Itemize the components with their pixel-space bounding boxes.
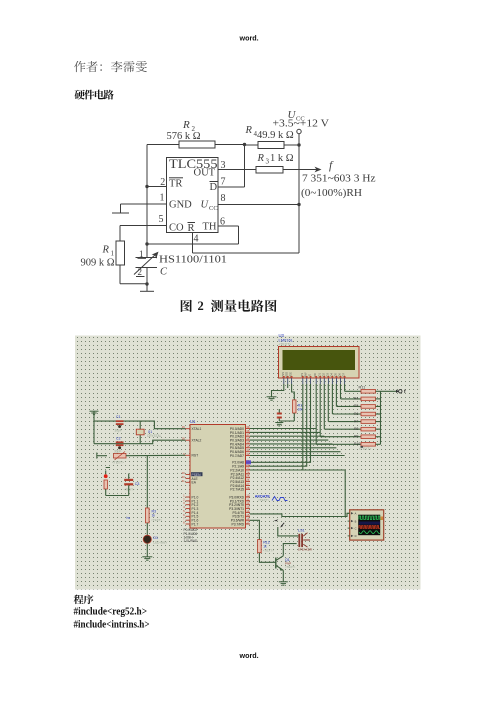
ground (pin 1) — [112, 212, 129, 214]
small resistor below dot — [104, 480, 107, 489]
svg-text:LS1: LS1 — [298, 528, 305, 532]
rail right of resistor stack — [380, 391, 382, 444]
wire LS1 upper input — [278, 527, 299, 536]
wire collector to LS1 — [283, 544, 296, 556]
svg-text:GND: GND — [169, 200, 192, 211]
capacitor C3 — [124, 479, 133, 481]
svg-text:2: 2 — [198, 299, 204, 313]
svg-text:#include<reg52.h>: #include<reg52.h> — [74, 606, 148, 617]
wire down to R3 — [146, 456, 148, 508]
reset terminal — [96, 453, 98, 459]
svg-text:<TEXT>: <TEXT> — [263, 549, 274, 553]
svg-text:C1: C1 — [116, 415, 121, 419]
capacitor near R2 — [277, 413, 282, 415]
wire riser to P2.2 net — [344, 470, 346, 517]
svg-text:R6: R6 — [354, 412, 358, 416]
wire emitter to ground — [282, 570, 284, 581]
svg-text:17: 17 — [246, 521, 250, 525]
svg-text:D7: D7 — [342, 373, 346, 377]
wire P3 to scope — [250, 513, 350, 516]
svg-text:word.: word. — [239, 651, 259, 660]
data bus: P0.0-P0.7 to LCD D0-D7 drops — [250, 428, 316, 430]
svg-text:LED-BIBY: LED-BIBY — [153, 541, 167, 545]
svg-text:CO: CO — [169, 223, 184, 234]
svg-text:R: R — [245, 125, 253, 136]
wire: R1 bottom — [119, 265, 121, 284]
resistor R3 — [146, 508, 150, 523]
svg-text:2: 2 — [160, 177, 165, 188]
svg-text:30pF: 30pF — [115, 429, 122, 433]
highlighted pin 25 — [246, 460, 251, 464]
resistor row 1 — [341, 398, 361, 400]
svg-text:<TEXT>: <TEXT> — [285, 565, 296, 569]
svg-text:R11: R11 — [359, 386, 366, 390]
wire VSS to ground — [272, 384, 284, 397]
op-amp U1: TLC555 timer body — [167, 158, 219, 233]
svg-text:CRYSTAL: CRYSTAL — [147, 434, 162, 438]
resistor row 3 — [333, 413, 362, 415]
capacitor C: HS1100/1101 humidity sensor — [146, 244, 148, 258]
svg-text:C3: C3 — [135, 482, 140, 486]
resistor R1 — [116, 241, 125, 265]
svg-text:1: 1 — [139, 249, 144, 259]
resistor row 0 — [345, 390, 361, 392]
svg-text:909 k Ω: 909 k Ω — [81, 258, 115, 269]
wire: top net from pin2 rail to R2 — [147, 144, 179, 146]
wire: pin 2 TR — [147, 186, 167, 188]
svg-text:1 k Ω: 1 k Ω — [270, 153, 294, 164]
node: junction R2/R4/pin7 — [243, 143, 246, 146]
resistor R4 — [245, 144, 259, 146]
svg-text:C: C — [160, 267, 168, 278]
wire: pin 6 TH to pin2 rail — [218, 225, 239, 227]
resistor R2 (LCD contrast) — [293, 400, 296, 413]
svg-text:3: 3 — [266, 158, 270, 166]
svg-text:1.0L/RAD: 1.0L/RAD — [184, 539, 199, 543]
svg-text:C2: C2 — [116, 437, 121, 441]
power indicator red dot — [104, 474, 108, 478]
wire VDD — [287, 384, 289, 388]
ground below D1 — [146, 543, 148, 556]
svg-text:P3.7/RD: P3.7/RD — [232, 522, 245, 526]
svg-text:1: 1 — [111, 250, 115, 258]
LCD data pin drops down to pull-up rows — [315, 384, 317, 444]
svg-text:R: R — [102, 245, 110, 256]
resistor row 6 — [320, 436, 361, 438]
svg-text:7 351~603 3 Hz: 7 351~603 3 Hz — [302, 174, 376, 185]
svg-text:D1: D1 — [153, 536, 158, 540]
svg-text:R: R — [188, 223, 195, 234]
caption — [181, 300, 192, 312]
svg-text:TH: TH — [203, 222, 217, 233]
svg-text:#include<intrins.h>: #include<intrins.h> — [74, 620, 150, 631]
crystal X1 — [139, 421, 141, 444]
svg-text:31: 31 — [182, 479, 186, 483]
wire to R12 — [250, 520, 259, 539]
svg-text:R10: R10 — [354, 442, 360, 446]
f input terminal — [381, 390, 399, 392]
ground top-left — [90, 411, 99, 414]
svg-text:R: R — [182, 119, 190, 131]
svg-text:TR: TR — [169, 179, 182, 190]
svg-text:R4: R4 — [354, 397, 358, 401]
svg-text:RST: RST — [192, 454, 199, 458]
svg-text:OUT: OUT — [194, 168, 216, 179]
svg-text:word.: word. — [239, 34, 259, 43]
svg-text:C: C — [355, 526, 357, 530]
power terminal Ucc — [297, 129, 301, 133]
svg-text:B: B — [355, 519, 357, 523]
wire XTAL2 net — [94, 440, 186, 444]
svg-text:R8: R8 — [354, 427, 358, 431]
wire: pin 7 D to R2/R4 node — [218, 186, 245, 188]
svg-text:2: 2 — [138, 267, 143, 277]
svg-text:P2.7/A15: P2.7/A15 — [230, 488, 244, 492]
svg-text:CC: CC — [209, 205, 218, 212]
svg-text:HS1100/1101: HS1100/1101 — [159, 255, 227, 266]
wire: pin 4 reset to Ucc — [192, 233, 194, 254]
svg-text:R5: R5 — [354, 404, 358, 408]
svg-text:hs: hs — [127, 516, 131, 520]
control bus: P2.0-P2.2 to LCD RS/RW/E — [250, 384, 311, 462]
svg-text:XTAL2: XTAL2 — [192, 439, 202, 443]
wire: pin 8 Ucc — [218, 204, 299, 206]
svg-text:U1: U1 — [190, 419, 196, 424]
svg-text:28: 28 — [246, 486, 250, 490]
svg-text:5: 5 — [159, 214, 164, 225]
svg-text:1k: 1k — [152, 513, 156, 517]
svg-text:R: R — [257, 153, 265, 164]
wire XTAL1 net — [94, 421, 186, 429]
svg-text:XTAL1: XTAL1 — [192, 427, 202, 431]
wire: pin 5 CO — [120, 225, 167, 227]
svg-text:7: 7 — [221, 177, 226, 188]
wire: P2.2 extension to scope riser — [303, 469, 345, 471]
svg-text:30pF: 30pF — [114, 450, 121, 454]
wire VEE to contrast resistor — [292, 384, 295, 400]
svg-text:f: f — [329, 160, 334, 172]
svg-text:R7: R7 — [354, 419, 358, 423]
svg-text:R9: R9 — [354, 435, 358, 439]
svg-text:D: D — [210, 182, 218, 193]
svg-text:P0.7/AD7: P0.7/AD7 — [230, 454, 244, 458]
resistor row 5 — [324, 428, 361, 430]
probe arrow — [281, 523, 284, 527]
node: C bottom junction — [145, 282, 148, 285]
wire: left vertical rail — [146, 145, 148, 245]
wire: pin 3 OUT to R3 — [218, 169, 256, 171]
wire: output with arrow — [283, 169, 319, 171]
svg-text:(0~100%)RH: (0~100%)RH — [301, 187, 362, 199]
svg-text:<TEXT>: <TEXT> — [112, 461, 124, 465]
wire: pin 1 GND — [121, 203, 167, 205]
transistor Q1 — [259, 553, 275, 563]
svg-text:8: 8 — [221, 193, 226, 204]
resistor R2 — [179, 141, 215, 148]
resistor row 4 — [328, 421, 361, 423]
svg-text:P1.7: P1.7 — [192, 522, 199, 526]
oscilloscope display — [350, 510, 384, 540]
svg-text:<TEXT>: <TEXT> — [258, 498, 269, 502]
svg-text:A: A — [355, 512, 357, 516]
node: pin2 junction — [145, 185, 148, 188]
resistor R3 — [256, 167, 283, 174]
svg-text:4: 4 — [194, 234, 199, 245]
resistor row 7 — [316, 443, 361, 445]
svg-text:576 k Ω: 576 k Ω — [167, 131, 201, 142]
resistor row 2 — [337, 405, 362, 407]
diode D1 — [146, 523, 148, 535]
svg-text:<TEXT>: <TEXT> — [151, 518, 162, 522]
svg-text:32: 32 — [246, 452, 250, 456]
svg-text:49.9 k Ω: 49.9 k Ω — [257, 130, 294, 141]
ground (sensor) — [146, 284, 148, 291]
svg-text:1: 1 — [160, 193, 165, 204]
svg-text:SPEAKER: SPEAKER — [298, 547, 313, 551]
svg-text:E: E — [308, 374, 312, 376]
svg-text:D: D — [355, 534, 357, 538]
potentiometer RV1 — [114, 454, 127, 458]
svg-text:+3.5~+12 V: +3.5~+12 V — [273, 119, 330, 130]
svg-text:<TEXT>: <TEXT> — [279, 342, 292, 346]
wire ground rail — [93, 411, 95, 444]
resistor R12 — [258, 540, 262, 553]
probe marker on scope wire — [274, 519, 279, 521]
wire RST — [126, 454, 186, 456]
